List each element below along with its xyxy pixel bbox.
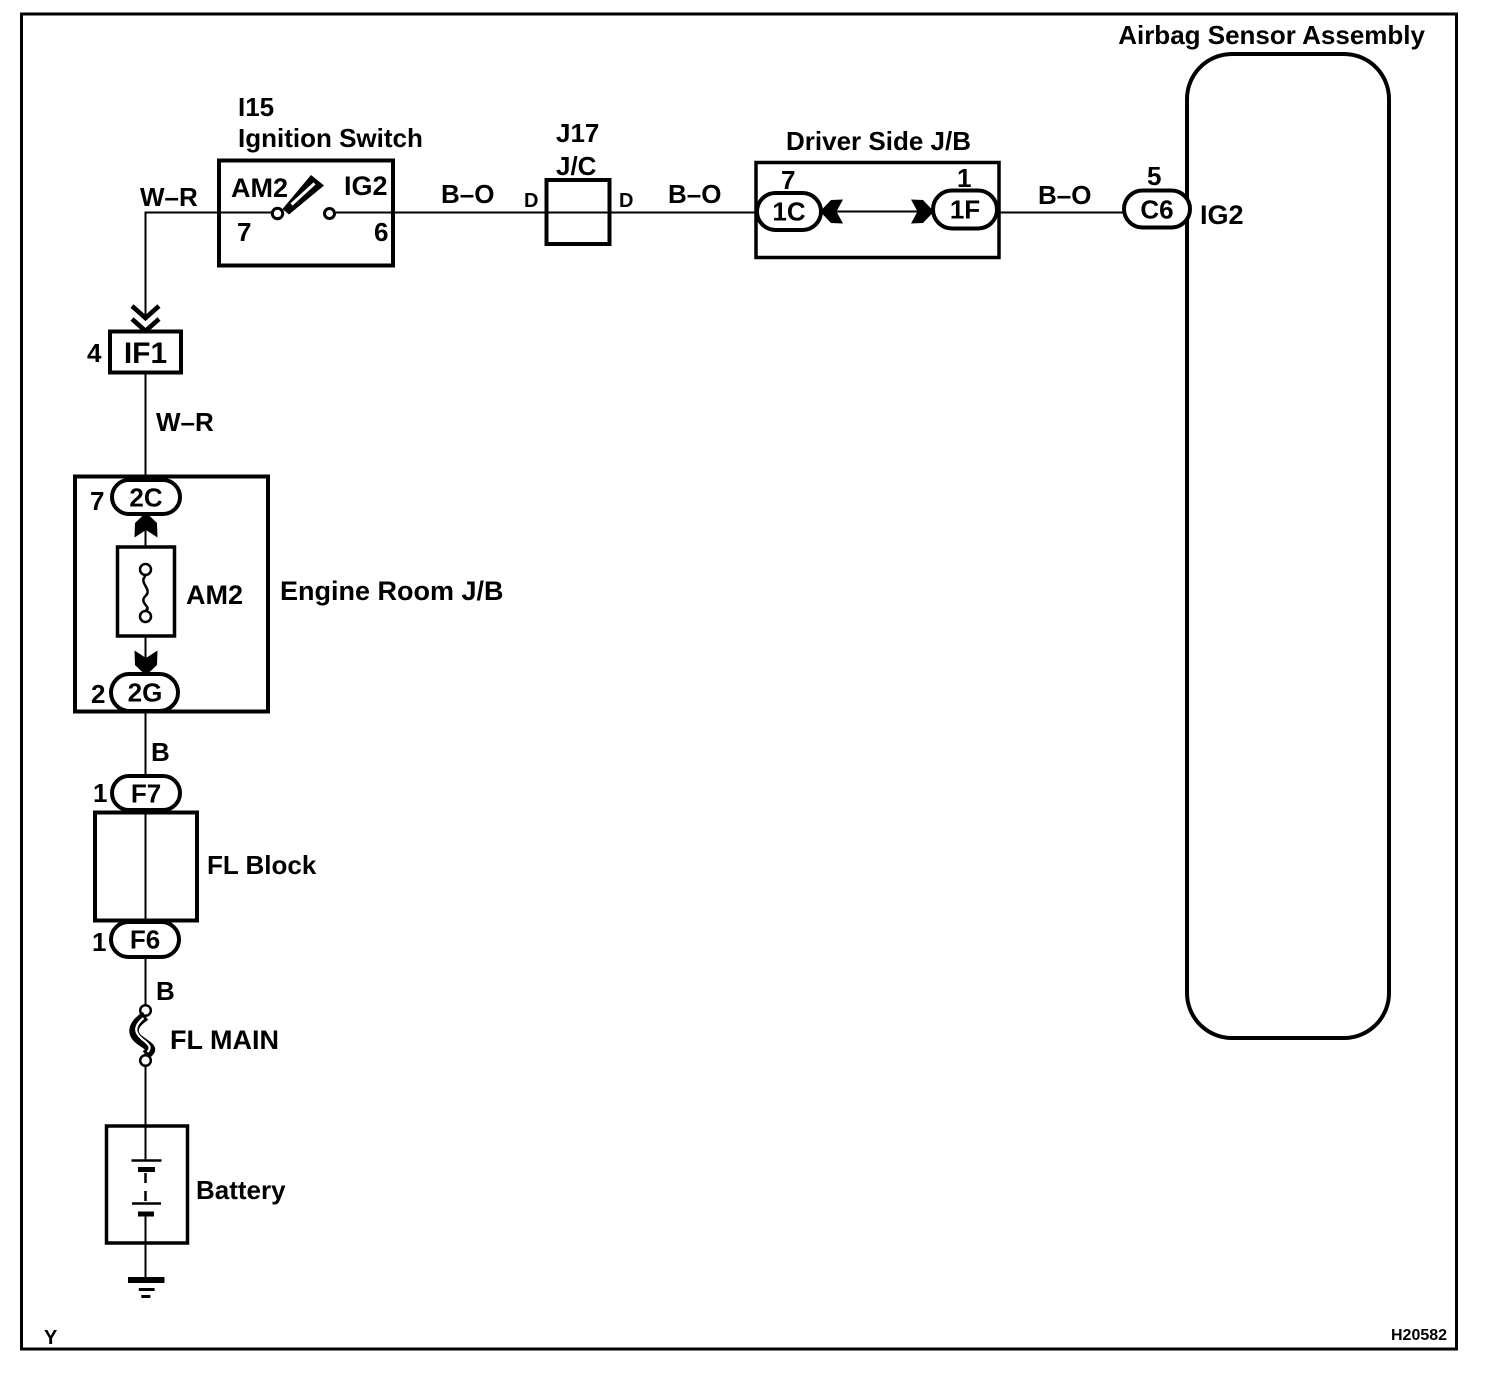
- battery dashed center: [144, 1173, 147, 1203]
- double chevron splice arrows above IF1: [132, 306, 159, 318]
- svg-text:Y: Y: [44, 1327, 58, 1349]
- battery plate long positive bottom: [132, 1202, 161, 1205]
- switch lever: [283, 175, 325, 215]
- connector C6 oval: [1124, 191, 1190, 228]
- svg-text:J/C: J/C: [556, 151, 597, 181]
- wire: top horizontal B-O run from ignition switch to Driver Side J/B: [395, 212, 757, 214]
- wire: inside ignition switch from left edge to pivot contact: [221, 212, 272, 214]
- svg-text:J17: J17: [556, 118, 599, 148]
- svg-text:D: D: [524, 190, 538, 212]
- svg-text:7: 7: [237, 217, 251, 247]
- battery plate short thick: [138, 1167, 155, 1172]
- svg-text:D: D: [619, 190, 633, 212]
- ground symbol: [128, 1277, 165, 1283]
- connector 2G oval: [111, 674, 178, 711]
- FL Block box: [95, 813, 197, 921]
- svg-text:7: 7: [781, 165, 795, 195]
- svg-text:IG2: IG2: [344, 171, 388, 201]
- svg-text:B–O: B–O: [1038, 180, 1091, 210]
- switch pivot contact circle AM2: [272, 208, 282, 218]
- svg-text:Airbag Sensor Assembly: Airbag Sensor Assembly: [1118, 20, 1425, 50]
- wire: FL MAIN to battery positive plate: [145, 1067, 147, 1160]
- svg-text:FL Block: FL Block: [207, 850, 317, 880]
- Engine Room J/B box: [75, 477, 268, 712]
- battery plate short thick bottom: [138, 1212, 154, 1217]
- svg-text:IF1: IF1: [124, 337, 167, 370]
- svg-text:4: 4: [87, 338, 102, 368]
- svg-text:1C: 1C: [772, 197, 805, 227]
- svg-text:H20582: H20582: [1391, 1327, 1447, 1344]
- wire: inside ignition switch from IG2 contact to right edge: [336, 212, 395, 214]
- svg-text:1: 1: [93, 778, 107, 808]
- svg-text:C6: C6: [1140, 195, 1173, 225]
- connector 1C oval: [757, 193, 821, 230]
- svg-text:F6: F6: [130, 925, 160, 955]
- wire: through FL Block from F7 to F6: [145, 810, 147, 926]
- Airbag Sensor Assembly outline: [1187, 54, 1389, 1038]
- svg-text:FL MAIN: FL MAIN: [170, 1025, 279, 1055]
- svg-text:5: 5: [1147, 161, 1161, 191]
- svg-text:F7: F7: [131, 779, 161, 809]
- wire: F6 to FL MAIN: [145, 957, 147, 1004]
- svg-text:1F: 1F: [950, 195, 980, 225]
- svg-text:B–O: B–O: [668, 179, 721, 209]
- Driver Side J/B box: [756, 163, 999, 258]
- svg-text:6: 6: [374, 217, 388, 247]
- battery plate long positive top: [132, 1159, 162, 1162]
- svg-text:1: 1: [92, 927, 106, 957]
- half arrow pointing right into 1F: [911, 200, 934, 224]
- switch contact circle IG2: [325, 209, 335, 219]
- svg-text:Engine Room J/B: Engine Room J/B: [280, 576, 504, 606]
- svg-text:AM2: AM2: [231, 173, 288, 203]
- svg-text:W–R: W–R: [140, 182, 198, 212]
- svg-text:B–O: B–O: [441, 179, 494, 209]
- svg-text:IG2: IG2: [1200, 200, 1244, 230]
- wire: 2G to F7: [145, 711, 147, 780]
- wire: vertical from IF1 down to 2C: [145, 372, 147, 486]
- svg-text:2: 2: [91, 679, 105, 709]
- connector F7 oval: [112, 776, 180, 810]
- solid arrow up into 2C: [135, 513, 158, 538]
- wire: inside fuse: [145, 549, 147, 566]
- connector 1F oval: [933, 191, 997, 229]
- svg-text:AM2: AM2: [186, 580, 243, 610]
- svg-text:B: B: [151, 737, 170, 767]
- wire: inside Driver Side J/B between half arrows: [836, 211, 918, 213]
- connector 2C oval: [112, 480, 180, 514]
- wire: 2C to AM2 fuse: [145, 514, 147, 549]
- svg-text:I15: I15: [238, 92, 274, 122]
- svg-text:7: 7: [90, 486, 104, 516]
- wire: fuse to 2G: [145, 636, 147, 676]
- wire: vertical W-R from corner down to IF1: [145, 212, 147, 319]
- fusible link FL MAIN: [140, 1005, 151, 1016]
- battery box: [107, 1126, 188, 1243]
- wire: W-R horizontal from corner to ignition switch: [145, 212, 222, 214]
- connector F6 oval: [111, 922, 179, 957]
- half arrow pointing left into 1C: [820, 200, 843, 224]
- junction connector J17 J/C box: [547, 180, 610, 244]
- svg-text:Ignition Switch: Ignition Switch: [238, 123, 423, 153]
- fuse AM2 box: [118, 547, 175, 636]
- svg-text:2G: 2G: [128, 678, 163, 708]
- svg-text:W–R: W–R: [156, 407, 214, 437]
- svg-text:B: B: [156, 976, 175, 1006]
- svg-text:Driver Side J/B: Driver Side J/B: [786, 126, 971, 156]
- connector IF1 box: [110, 332, 181, 373]
- wire: battery negative plate to ground: [145, 1216, 147, 1278]
- svg-text:Battery: Battery: [196, 1175, 286, 1205]
- solid arrow down into 2G: [135, 651, 158, 676]
- fuse element: [140, 564, 151, 575]
- wire: B-O from Driver Side J/B to C6: [997, 212, 1160, 214]
- ignition switch box I15: [219, 161, 393, 266]
- svg-text:2C: 2C: [129, 483, 162, 513]
